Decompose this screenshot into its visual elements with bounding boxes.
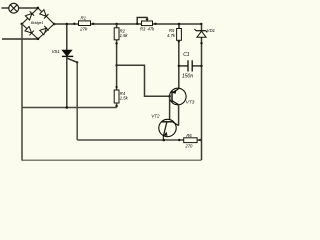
node R4 top pin (116, 86, 118, 88)
bridge diode top-left (25, 11, 34, 20)
lamp (9, 3, 19, 13)
transistor VT3 (170, 88, 195, 105)
node bridge top corner (37, 7, 40, 10)
wire mid horizontal (22, 107, 117, 109)
bridge rectifier Bridge1 diamond (22, 8, 54, 39)
wire top terminal to lamp (2, 7, 10, 9)
node C1 left junction (178, 65, 180, 67)
svg-text:4.7k: 4.7k (167, 33, 176, 38)
wire bottom rail (22, 159, 202, 161)
node gate corner (76, 61, 78, 63)
node R5 top junction (178, 23, 181, 26)
thyristor VS1 (52, 49, 74, 56)
wire gate vertical (76, 62, 78, 140)
svg-text:1.5k: 1.5k (120, 96, 129, 101)
wire R6 right to right vertical (197, 139, 201, 141)
svg-text:VD1: VD1 (207, 28, 215, 33)
node VT3 base junction (168, 95, 171, 98)
node middle branch (115, 64, 117, 66)
node C1 right junction (200, 65, 202, 67)
node VT2 emitter junction (163, 139, 166, 142)
svg-text:C1: C1 (183, 52, 190, 58)
bridge diode top-right (40, 10, 49, 19)
svg-text:VS1: VS1 (52, 49, 61, 54)
svg-text:R6: R6 (186, 133, 192, 138)
node VD1 anode pin (200, 42, 202, 44)
node top rail right corner (200, 23, 202, 25)
wire R5 bottom to VT3 emitter (178, 40, 180, 89)
wire VT3 collector drop (178, 105, 180, 126)
node R4 bottom junction (115, 105, 117, 107)
resistor R5 (167, 24, 181, 40)
node bridge right corner (53, 23, 56, 26)
svg-text:1.5k: 1.5k (120, 33, 129, 38)
bridge diode bottom-left (25, 26, 34, 35)
wire thyristor anode (66, 24, 68, 50)
node R2 top junction (115, 23, 118, 26)
potentiometer R3 (136, 17, 157, 31)
svg-text:27k: 27k (79, 26, 88, 31)
svg-text:Bridge1: Bridge1 (31, 21, 43, 25)
wire top rail (54, 23, 201, 25)
svg-text:R1: R1 (81, 16, 87, 21)
wire right vertical (201, 24, 203, 160)
wire R4 bottom lead (116, 103, 118, 108)
capacitor C1 (179, 52, 202, 80)
node thyristor cathode junction (66, 106, 69, 109)
svg-text:VT2: VT2 (151, 113, 160, 118)
bridge diode bottom-right (40, 26, 49, 35)
wire bottom terminal to bridge bottom corner (2, 38, 38, 40)
wire middle column R2 to R4 (116, 24, 118, 90)
svg-text:47k: 47k (148, 26, 156, 31)
node R5 bottom pin (178, 41, 180, 43)
node bridge bottom corner (37, 38, 40, 41)
wire gate rail to R6 (77, 139, 184, 141)
svg-text:VT3: VT3 (186, 99, 195, 104)
wire thyristor cathode (66, 56, 68, 107)
svg-text:150n: 150n (182, 74, 193, 80)
zener diode VD1 (195, 28, 215, 38)
resistor R1 (73, 16, 94, 32)
resistor R6 (178, 133, 201, 149)
wire thyristor gate diagonal (67, 58, 77, 62)
node R2 bottom pin (115, 42, 117, 44)
transistor VT2 (151, 113, 178, 140)
resistor R4 (114, 90, 128, 103)
wire VT3 base drop to VT2 (169, 96, 171, 122)
svg-text:R3: R3 (140, 26, 146, 31)
node thyristor anode junction (66, 23, 69, 26)
resistor R2 (114, 28, 128, 40)
wire left vertical (bridge minus) (21, 24, 23, 161)
svg-text:270: 270 (184, 143, 193, 148)
wire branch to VT3 base (117, 65, 170, 96)
wire lamp to bridge top corner (19, 7, 38, 9)
node bridge left corner (21, 23, 24, 26)
